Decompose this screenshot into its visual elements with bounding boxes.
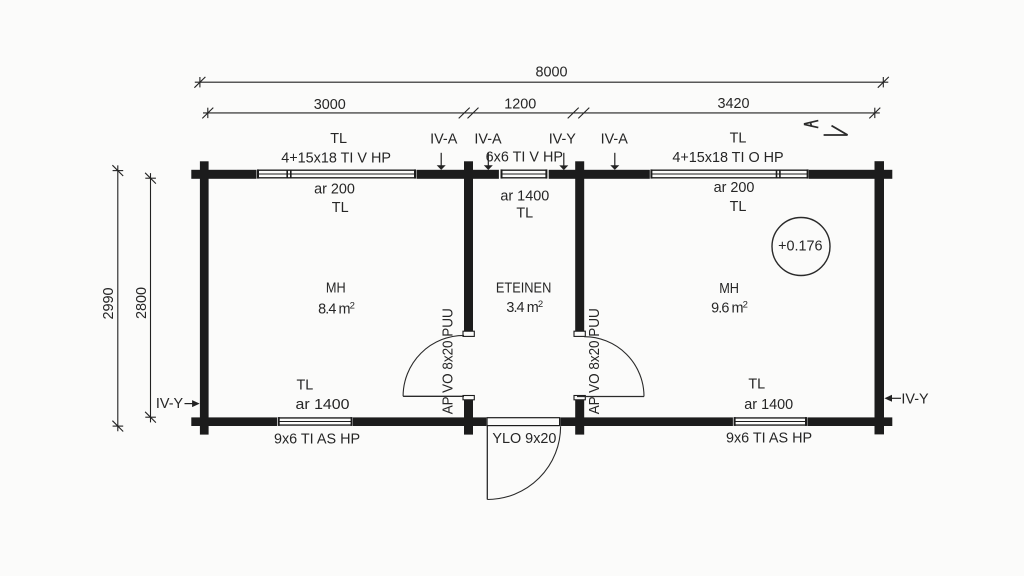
svg-text:9x6 TI AS HP: 9x6 TI AS HP — [274, 431, 360, 447]
door YLO leaf — [486, 426, 488, 500]
svg-text:AP VO 8x20 PUU: AP VO 8x20 PUU — [440, 308, 456, 414]
dimension line 3000/1200/3420 — [202, 108, 880, 119]
wall top (exterior) — [191, 170, 892, 179]
dimension line 2800 (vertical) — [145, 173, 156, 423]
svg-text:IV-A: IV-A — [601, 131, 629, 147]
door YLO threshold — [486, 417, 560, 427]
arrow IV-A 1 — [440, 153, 442, 167]
arrow IV-Y right — [892, 397, 901, 399]
arrow IV-A 2 — [487, 153, 489, 166]
svg-text:4+15x18 TI V HP: 4+15x18 TI V HP — [281, 150, 391, 166]
partition 2 upper segment — [575, 161, 584, 331]
svg-text:TL: TL — [730, 199, 747, 215]
arrow IV-Y top — [563, 153, 565, 167]
svg-text:ETEINEN: ETEINEN — [496, 281, 552, 297]
svg-text:+0.176: +0.176 — [778, 238, 822, 254]
svg-text:6x6 TI V HP: 6x6 TI V HP — [486, 149, 563, 165]
svg-text:IV-A: IV-A — [474, 132, 502, 148]
partition 1 door jamb cap upper — [463, 331, 474, 336]
partition 1 door jamb cap lower — [463, 396, 474, 400]
svg-text:3.4 m2: 3.4 m2 — [506, 299, 543, 316]
svg-text:IV-A: IV-A — [430, 132, 458, 148]
partition 2 door swing arc — [584, 337, 644, 397]
window W5 bottom-right 9x6 TI AS HP — [733, 417, 808, 427]
svg-text:TL: TL — [516, 206, 533, 222]
partition 2 door jamb cap upper — [574, 331, 585, 336]
door YLO swing arc — [487, 426, 560, 499]
partition 1 lower segment — [464, 400, 473, 435]
svg-text:YLO 9x20: YLO 9x20 — [492, 431, 556, 447]
svg-text:TL: TL — [330, 131, 347, 147]
svg-text:TL: TL — [730, 131, 747, 147]
svg-text:9x6 TI AS HP: 9x6 TI AS HP — [726, 430, 812, 446]
window W4 bottom-left 9x6 TI AS HP — [277, 417, 353, 427]
wall bottom (exterior) — [191, 417, 892, 426]
section marker direction symbol — [824, 126, 848, 135]
section marker letter A (rotated) — [804, 121, 818, 128]
svg-text:8.4 m2: 8.4 m2 — [318, 300, 355, 317]
svg-text:ar 200: ar 200 — [314, 181, 355, 197]
arrow IV-A 3 — [614, 153, 616, 167]
dimension line 2990 (vertical) — [112, 165, 123, 431]
svg-text:IV-Y: IV-Y — [549, 131, 577, 147]
wall right (exterior) — [875, 161, 885, 434]
partition 1 door swing arc — [403, 335, 464, 396]
window W1 top-left 4+15x18 TI V HP — [257, 169, 417, 179]
svg-text:IV-Y: IV-Y — [156, 396, 184, 412]
svg-text:2800: 2800 — [134, 287, 150, 319]
svg-text:TL: TL — [748, 377, 765, 393]
svg-text:ar 1400: ar 1400 — [500, 188, 549, 204]
window W3 top-right 4+15x18 TI O HP — [650, 169, 809, 179]
svg-text:TL: TL — [332, 200, 349, 216]
svg-text:4+15x18 TI O HP: 4+15x18 TI O HP — [672, 150, 783, 166]
svg-text:IV-Y: IV-Y — [901, 391, 929, 407]
partition 1 upper segment — [464, 161, 473, 331]
svg-text:1200: 1200 — [504, 96, 536, 112]
svg-text:ar 1400: ar 1400 — [296, 397, 350, 413]
svg-text:ar 1400: ar 1400 — [744, 397, 793, 413]
svg-text:3420: 3420 — [717, 96, 749, 112]
partition 1 door leaf — [403, 395, 464, 397]
wall left (exterior) — [200, 161, 209, 434]
svg-text:9.6 m2: 9.6 m2 — [711, 299, 748, 316]
svg-text:AP VO 8x20 PUU: AP VO 8x20 PUU — [587, 308, 603, 414]
svg-text:MH: MH — [719, 281, 739, 297]
svg-text:ar 200: ar 200 — [714, 180, 755, 196]
svg-text:2990: 2990 — [101, 287, 117, 319]
level circle +0.176 — [772, 218, 830, 276]
svg-text:TL: TL — [297, 377, 314, 393]
arrow IV-Y left — [185, 403, 193, 405]
svg-text:3000: 3000 — [314, 97, 346, 113]
window W2 top-middle 6x6 TI V HP — [499, 169, 549, 179]
partition 2 door jamb cap lower — [574, 396, 585, 400]
svg-text:MH: MH — [326, 281, 346, 297]
svg-text:8000: 8000 — [535, 64, 567, 80]
partition 2 door leaf — [577, 396, 644, 398]
partition 2 lower segment — [575, 400, 584, 435]
dimension line 8000 — [194, 77, 888, 88]
